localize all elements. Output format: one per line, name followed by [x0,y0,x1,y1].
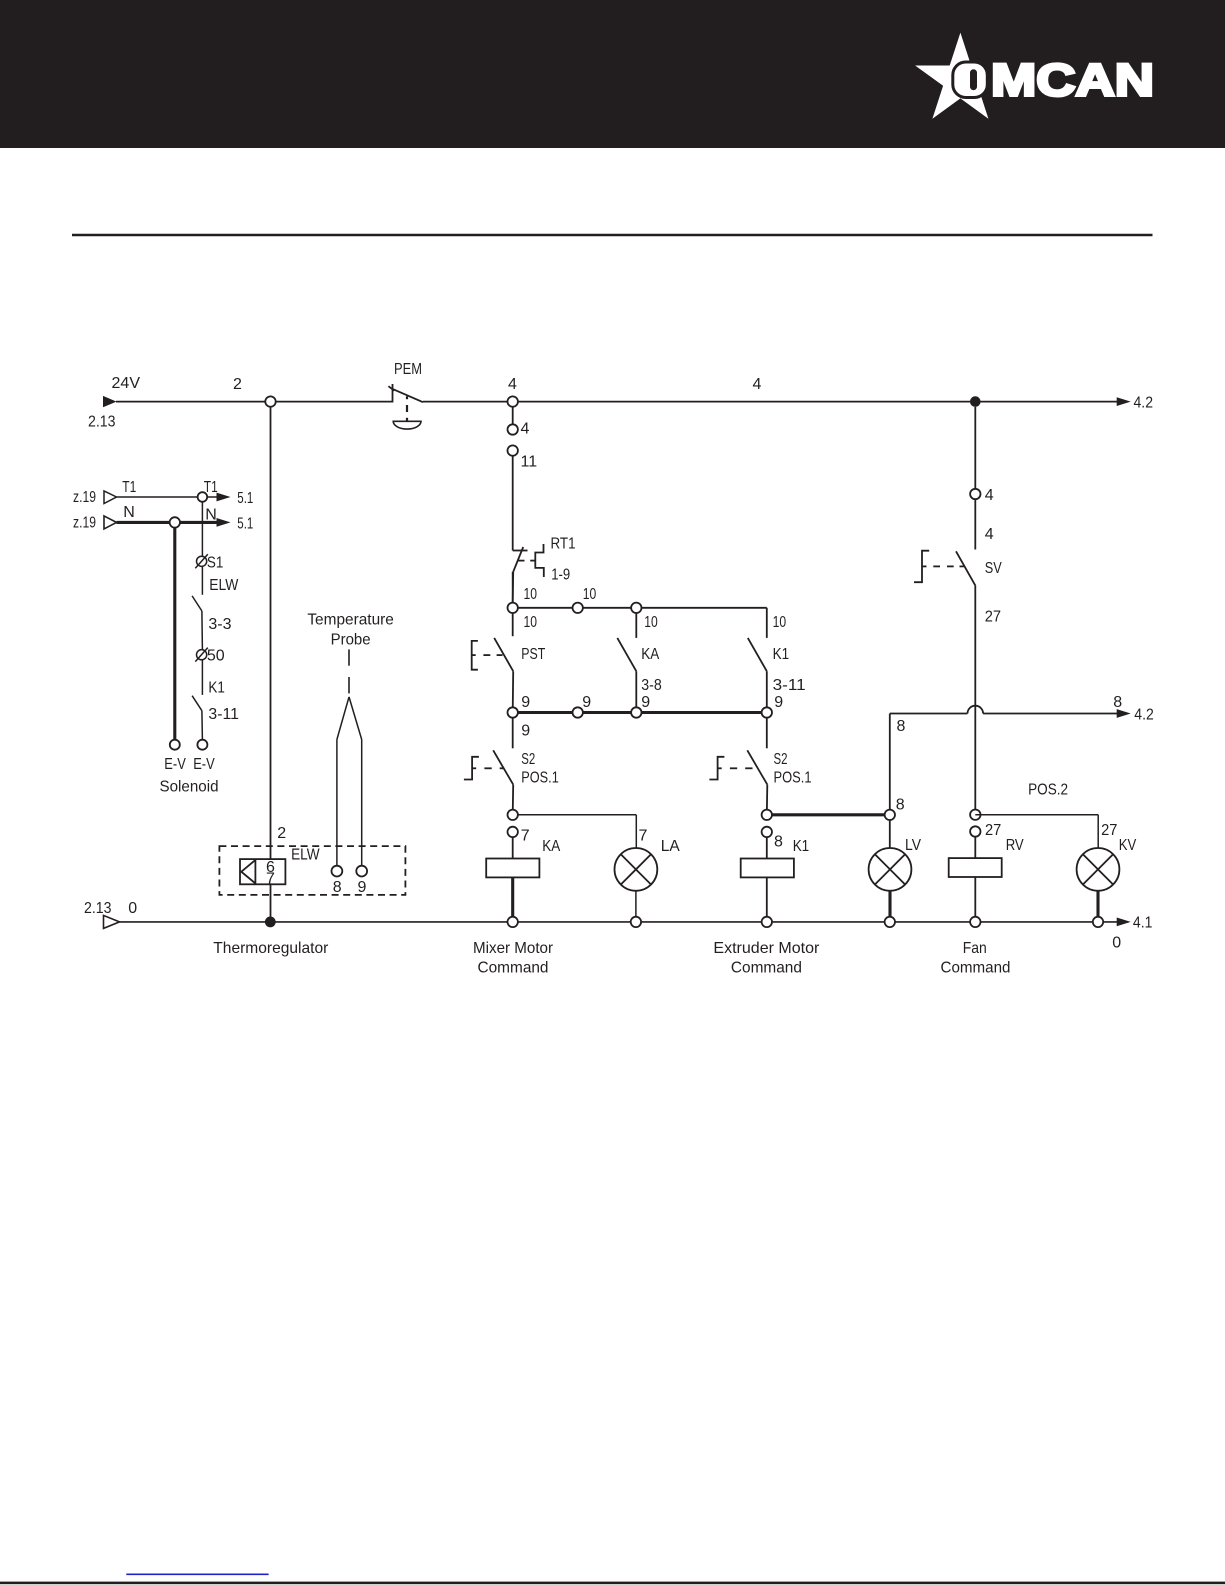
wire terminal to lamp LV [889,820,891,848]
net 24V source arrow 2.13 [103,396,117,407]
OMCAN logo [915,33,1154,119]
svg-text:11: 11 [521,454,538,471]
svg-text:4: 4 [521,421,530,438]
node 9 mid [573,707,583,717]
wire K1 contact to bus 9 [766,671,768,712]
contact KA 3-8 [617,638,636,671]
svg-text:9: 9 [358,879,367,896]
svg-text:7: 7 [521,828,530,845]
svg-text:PEM: PEM [394,361,422,378]
top rail wire to 4.2 [975,401,1117,403]
terminal 4 mixer column [512,402,514,425]
svg-text:9: 9 [521,694,530,711]
wire N to E-V [173,527,176,739]
svg-text:8: 8 [897,718,906,735]
thermoregulator dashed box [219,846,405,895]
svg-text:10: 10 [524,614,538,631]
svg-text:7: 7 [639,828,648,845]
terminal pair 8 extruder [762,810,772,820]
svg-text:Thermoregulator: Thermoregulator [213,940,329,957]
feed T1 z.19 [104,491,217,504]
junction dot thermoregulator [265,917,276,928]
svg-text:KA: KA [641,646,659,663]
svg-text:24V: 24V [112,375,141,392]
pushbutton PEM [388,384,423,429]
svg-text:E-V: E-V [193,756,215,773]
svg-text:3-11: 3-11 [208,706,239,723]
svg-text:2: 2 [277,825,286,842]
svg-text:8: 8 [774,834,783,851]
wire 11 to RT1 [512,456,514,551]
svg-text:PST: PST [521,646,545,663]
source triangle 2.13 0 [104,915,120,928]
wire terminal to SV contact [974,499,976,549]
svg-text:10: 10 [524,586,538,603]
svg-text:N: N [205,507,217,524]
terminal 8 LV [885,810,895,820]
link wire 27 to KV [975,815,1098,848]
terminal pair 27 fan [970,810,980,820]
svg-text:Fan: Fan [963,940,987,957]
rail node extruder [762,917,772,927]
switch S2 POS.1 extruder [709,750,767,784]
link wire to LA [513,815,637,848]
arrow N 5.1 [217,518,231,527]
svg-text:10: 10 [773,614,787,631]
wire to coil K1 [766,837,768,922]
wire bus9 to S2 extruder [766,718,768,749]
node 9 KA [631,707,641,717]
coil K1 [741,859,794,878]
svg-text:10: 10 [644,614,658,631]
terminal E-V left [170,740,180,750]
svg-text:5.1: 5.1 [237,490,253,507]
svg-text:9: 9 [582,694,591,711]
svg-text:27: 27 [985,822,1001,839]
svg-text:3-8: 3-8 [641,677,662,694]
rail node LA [631,917,641,927]
coil RV [949,858,1002,877]
svg-text:8: 8 [1113,694,1122,711]
svg-text:4: 4 [985,526,994,543]
net 4.2 right wire [890,706,1117,714]
wire to coil KA [512,837,514,877]
contact K1 3-11 [748,638,767,671]
wire node10 to KA contact [635,613,637,638]
plug S1 [195,554,208,568]
terminal 11 [508,445,518,455]
svg-text:9: 9 [521,723,530,740]
wire to plug 50 [201,611,204,650]
svg-text:7: 7 [266,870,275,887]
svg-text:4: 4 [753,376,762,393]
svg-text:T1: T1 [204,479,218,496]
svg-text:RV: RV [1006,837,1024,854]
svg-text:Temperature: Temperature [307,612,394,629]
lamp LV [869,848,912,891]
svg-text:Probe: Probe [331,631,371,648]
svg-text:LV: LV [905,837,921,854]
wire junction to SV [974,407,976,489]
wire to E-V terminal [201,711,204,740]
svg-text:0: 0 [1112,934,1121,951]
ELW relay element [240,859,285,884]
top rail wire 24V [116,401,393,403]
horizontal rule [72,234,1153,237]
node 2 on top rail [265,396,275,406]
rail node LV [885,917,895,927]
svg-text:RT1: RT1 [551,536,576,553]
terminal E-V right [197,740,207,750]
wire coil KA to rail [511,877,514,922]
arrow net 4.2 top [1117,397,1131,406]
svg-text:S1: S1 [207,555,224,572]
wire lamp LA to rail [635,891,637,922]
wire bus9 to S2 mixer [512,718,514,749]
rail node mixer [508,917,518,927]
svg-text:S2: S2 [521,751,535,768]
svg-text:K1: K1 [208,680,225,697]
svg-text:ELW: ELW [291,847,320,864]
svg-text:z.19: z.19 [73,514,96,531]
svg-text:10: 10 [583,586,597,603]
svg-text:z.19: z.19 [73,489,96,506]
node 9 left [508,707,518,717]
wire KA contact to bus 9 [635,671,637,712]
probe terminal 8 [332,866,343,877]
svg-text:2: 2 [233,376,242,393]
terminal 4 SV [970,489,980,499]
svg-text:POS.1: POS.1 [521,770,559,787]
rail node RV [970,917,980,927]
junction dot net 4 [970,396,981,407]
svg-text:N: N [123,504,135,521]
temperature probe leader dashes [348,649,350,693]
wire to coil RV [974,837,976,922]
svg-text:3-3: 3-3 [208,616,231,633]
svg-text:8: 8 [333,879,342,896]
contact K1 3-11 [192,696,202,711]
bus 10 [513,607,767,609]
wire 10 corner to K1 contact [766,608,768,638]
svg-text:4.2: 4.2 [1134,707,1154,724]
svg-text:Command: Command [478,959,549,976]
rail node KV [1093,917,1103,927]
link wire 8 to LV [767,813,890,816]
bottom rail 0 [120,921,1118,923]
thermal contact RT1 1-9 [513,544,544,577]
svg-text:27: 27 [985,608,1001,625]
node 10 left [508,603,518,613]
svg-text:0: 0 [128,900,137,917]
arrow net 4.2 right [1117,709,1131,718]
switch S2 POS.1 mixer [464,750,513,784]
svg-text:9: 9 [774,694,783,711]
wire S2 extruder to terminal 8 [766,785,769,815]
wire lamp LV to rail [888,891,891,922]
svg-text:KV: KV [1119,837,1137,854]
wire S1 to contact ELW [201,567,203,595]
node 10 KA [631,603,641,613]
svg-text:8: 8 [896,797,905,814]
wire RT1 to node 10 [512,572,515,603]
terminal pair 7 mixer [508,810,518,820]
wire S2 to terminal 7 [512,785,515,815]
plug 50 [195,648,208,662]
footer blue line [126,1573,268,1575]
svg-text:5.1: 5.1 [237,515,253,532]
feed N z.19 [104,516,217,529]
wire to contact K1 [201,660,203,695]
svg-text:Extruder Motor: Extruder Motor [713,940,820,957]
wire T1 down [201,502,203,556]
svg-text:27: 27 [1101,822,1117,839]
node 10 mid [573,603,583,613]
wire PST to bus 9 [512,671,515,712]
probe terminal 9 [356,866,367,877]
svg-text:POS.1: POS.1 [774,770,812,787]
svg-text:4.1: 4.1 [1133,915,1153,932]
contact PST [472,638,514,671]
svg-text:50: 50 [207,647,225,664]
top rail wire PEM to junction [423,401,970,403]
coil KA [486,859,539,878]
node 9 right [762,707,772,717]
svg-text:2.13: 2.13 [84,900,112,917]
svg-text:MCAN: MCAN [991,55,1154,106]
svg-text:3-11: 3-11 [773,677,806,694]
wire node10 to PST [512,613,514,636]
svg-text:LA: LA [661,838,680,855]
svg-text:K1: K1 [793,838,810,855]
svg-text:POS.2: POS.2 [1028,782,1068,799]
arrow T1 5.1 [217,493,231,502]
svg-text:Mixer Motor: Mixer Motor [473,940,554,957]
svg-text:2.13: 2.13 [88,414,116,431]
svg-text:KA: KA [542,838,560,855]
svg-text:Command: Command [941,959,1011,976]
wire 2 vertical [270,407,272,918]
svg-text:S2: S2 [774,751,788,768]
wire SV to terminal 27 [974,585,976,814]
switch SV [914,551,975,586]
svg-text:1-9: 1-9 [551,566,570,583]
node N [170,517,180,527]
header bar [0,0,1225,148]
svg-text:K1: K1 [773,646,790,663]
wire net 8 from 4.2 line down [889,714,891,815]
lamp KV [1077,848,1120,891]
lamp LA [615,848,658,891]
arrow net 4.1 [1117,918,1131,927]
svg-text:Command: Command [731,959,802,976]
svg-text:4.2: 4.2 [1134,394,1154,411]
svg-text:4: 4 [508,376,517,393]
footer black line [0,1582,1225,1585]
svg-text:T1: T1 [122,479,136,496]
svg-text:9: 9 [641,694,650,711]
svg-text:Solenoid: Solenoid [160,779,219,796]
temperature probe [337,697,362,866]
svg-text:ELW: ELW [209,577,239,594]
svg-text:SV: SV [985,560,1002,577]
wire lamp KV to rail [1096,891,1099,922]
svg-text:4: 4 [985,487,994,504]
bus 9 [513,711,767,714]
contact ELW 3-3 [192,596,202,611]
svg-text:E-V: E-V [164,756,186,773]
